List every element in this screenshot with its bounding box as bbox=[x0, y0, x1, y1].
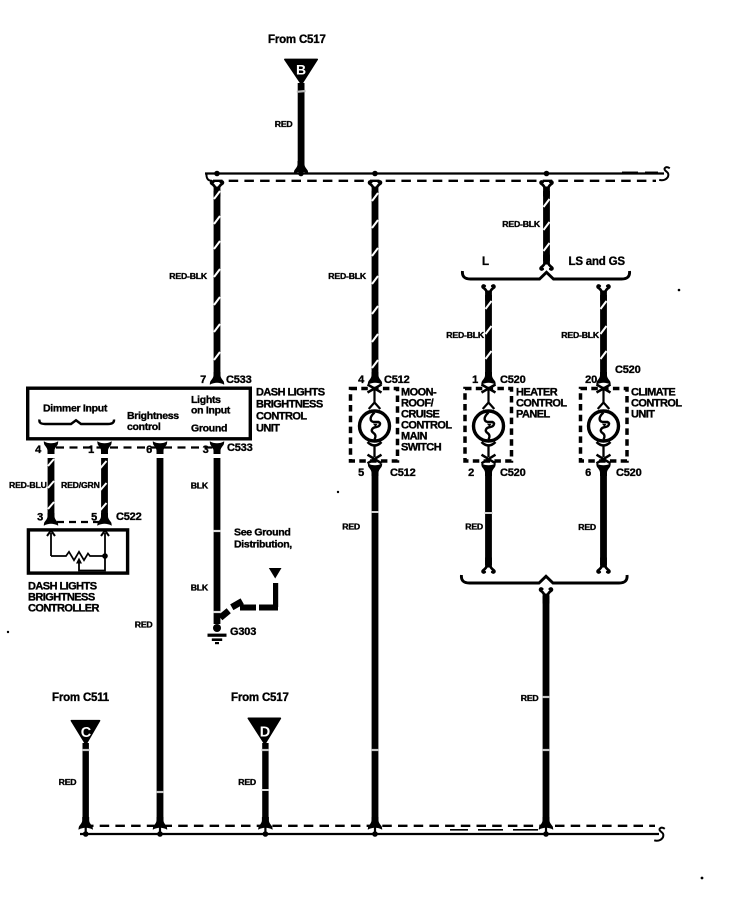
junction dot (ground bus / join wire) bbox=[543, 831, 549, 837]
connector flare at pin 5 (bottom of moon-roof switch) bbox=[368, 463, 382, 476]
svg-text:C533: C533 bbox=[227, 442, 253, 454]
connector flare at pin 1 bbox=[481, 372, 495, 385]
lamp (moon-roof switch illumination) bbox=[360, 385, 390, 464]
svg-text:Ground: Ground bbox=[191, 423, 227, 435]
hot bus artifact dashes near right end bbox=[622, 171, 658, 173]
svg-text:UNIT: UNIT bbox=[631, 409, 655, 421]
svg-text:C533: C533 bbox=[226, 374, 252, 386]
connector flare at ground bus (join wire) bbox=[539, 817, 553, 830]
svg-text:B: B bbox=[296, 62, 306, 78]
svg-text:C512: C512 bbox=[384, 374, 410, 386]
svg-text:C522: C522 bbox=[116, 511, 142, 523]
svg-text:C520: C520 bbox=[616, 467, 642, 479]
svg-text:From C511: From C511 bbox=[52, 692, 110, 704]
wire RED from triangle C to ground bus bbox=[82, 743, 90, 820]
ground bus continuation squiggle (bottom right) bbox=[654, 828, 665, 841]
scan speck (bottom right) bbox=[701, 877, 704, 880]
hook at end of climate wire bbox=[598, 558, 610, 573]
junction dot (ground bus / pin 6 wire) bbox=[157, 831, 163, 837]
svg-text:RED-BLU: RED-BLU bbox=[9, 480, 47, 490]
svg-text:C520: C520 bbox=[500, 374, 526, 386]
potentiometer inside controller bbox=[47, 531, 109, 571]
svg-text:L: L bbox=[482, 256, 489, 268]
lamp (climate control illumination) bbox=[589, 385, 619, 464]
svg-text:C512: C512 bbox=[390, 467, 416, 479]
svg-text:RED: RED bbox=[521, 693, 539, 703]
svg-text:BRIGHTNESS: BRIGHTNESS bbox=[256, 399, 323, 411]
dimmer input range bracket bbox=[39, 420, 114, 425]
connector flare at ground bus (moon-roof wire) bbox=[368, 817, 382, 830]
unit label CLIMATE CONTROL UNIT bbox=[631, 387, 682, 421]
svg-text:SWITCH: SWITCH bbox=[401, 442, 442, 454]
junction dot (bus / wire to C520) bbox=[544, 171, 550, 177]
split bracket (L / LS and GS) bbox=[462, 271, 629, 279]
unit label DASH LIGHTS BRIGHTNESS CONTROL UNIT bbox=[256, 387, 325, 435]
svg-text:RED: RED bbox=[135, 620, 153, 630]
svg-text:6: 6 bbox=[585, 467, 591, 479]
svg-text:RED: RED bbox=[238, 777, 256, 787]
connector flare pin 1 bbox=[97, 441, 111, 454]
hook at end of RED-BLK wire above split bracket bbox=[541, 255, 553, 270]
lamp (heater panel illumination) bbox=[474, 385, 504, 464]
svg-text:From C517: From C517 bbox=[268, 34, 326, 46]
svg-text:6: 6 bbox=[146, 444, 152, 456]
scan speck (right) bbox=[678, 289, 681, 292]
svg-text:on Input: on Input bbox=[191, 405, 231, 417]
svg-text:control: control bbox=[127, 421, 161, 433]
svg-text:BLK: BLK bbox=[191, 583, 209, 593]
svg-text:G303: G303 bbox=[230, 626, 256, 638]
svg-text:3: 3 bbox=[203, 444, 209, 456]
connector flare at ground bus (triangle D wire) bbox=[258, 817, 272, 830]
junction dot (bus / wire B) bbox=[298, 171, 304, 177]
connector C533 dashed line (bottom of control unit) bbox=[56, 446, 221, 448]
dash lights brightness controller box bbox=[28, 530, 127, 573]
label Lights on Input bbox=[191, 394, 231, 417]
hot bus continuation squiggle (top right) bbox=[659, 167, 670, 180]
connector flare at ground bus (pin 6 wire) bbox=[153, 817, 167, 830]
off-page connector triangle D bbox=[248, 718, 280, 744]
svg-text:See Ground: See Ground bbox=[234, 527, 291, 539]
wire RED from triangle B to hot bus bbox=[297, 83, 306, 166]
climate control unit dashed box bbox=[581, 389, 628, 462]
svg-text:2: 2 bbox=[468, 467, 474, 479]
join bracket (heater + climate to single wire) bbox=[461, 575, 627, 583]
svg-text:From C517: From C517 bbox=[231, 692, 289, 704]
connector flare at pin 4 bbox=[368, 372, 382, 385]
junction dot (bus / wire to C512) bbox=[372, 171, 378, 177]
svg-text:5: 5 bbox=[358, 467, 364, 479]
wire RED-BLK from bus to L / LS-GS split bbox=[543, 191, 550, 261]
connector flare at pin 7 bbox=[210, 372, 224, 385]
hook connector below bus at x=546 bbox=[541, 182, 553, 197]
unit label MOON-ROOF/CRUISE CONTROL MAIN SWITCH bbox=[401, 387, 452, 454]
svg-text:LS and GS: LS and GS bbox=[569, 256, 626, 268]
svg-text:RED-BLK: RED-BLK bbox=[446, 330, 485, 340]
svg-text:Distribution,: Distribution, bbox=[234, 539, 292, 551]
hot bus solid line (top) bbox=[205, 172, 664, 174]
wire BLK from control unit pin 3 to G303 bbox=[213, 458, 221, 624]
connector flare C522 pin 3 bbox=[44, 513, 58, 526]
ground bus dashed line (bottom) bbox=[84, 825, 655, 827]
unit label HEATER CONTROL PANEL bbox=[516, 387, 567, 421]
unit label DASH LIGHTS BRIGHTNESS CONTROLLER bbox=[28, 581, 99, 615]
connector flare pin 6 bbox=[153, 441, 167, 454]
hook connector below join bracket bbox=[540, 589, 552, 604]
off-page connector triangle C bbox=[71, 721, 99, 745]
label Brightness control bbox=[127, 410, 179, 433]
svg-text:PANEL: PANEL bbox=[516, 409, 551, 421]
junction dot (ground bus / moon-roof wire) bbox=[372, 831, 378, 837]
junction dot (ground bus / triangle D wire) bbox=[263, 831, 269, 837]
label See Ground Distribution, bbox=[234, 527, 292, 551]
ground G303 symbol bbox=[208, 624, 227, 644]
svg-text:RED-BLK: RED-BLK bbox=[328, 271, 367, 281]
connector flare at ground bus (triangle C wire) bbox=[79, 817, 93, 830]
svg-text:5: 5 bbox=[91, 512, 97, 524]
connector flare C522 pin 5 bbox=[97, 513, 111, 526]
svg-text:DASH LIGHTS: DASH LIGHTS bbox=[256, 387, 325, 399]
svg-text:RED: RED bbox=[342, 522, 360, 532]
connector flare at pin 6 (bottom of climate unit) bbox=[596, 463, 610, 476]
wire RED from control unit pin 6 to ground bus bbox=[156, 458, 164, 820]
wire RED from moon-roof pin 5 to ground bus bbox=[371, 475, 379, 820]
wire RED-BLU from pin 4 to C522 pin 3 bbox=[48, 458, 55, 515]
wire RED from join bracket to ground bus bbox=[542, 596, 550, 820]
svg-text:UNIT: UNIT bbox=[256, 423, 280, 435]
svg-text:CONTROL: CONTROL bbox=[256, 411, 307, 423]
svg-text:RED: RED bbox=[465, 522, 483, 532]
junction dot (bus / wire to C533) bbox=[214, 171, 220, 177]
svg-text:1: 1 bbox=[88, 444, 94, 456]
connector flare at pin 2 (bottom of heater panel) bbox=[481, 463, 495, 476]
svg-text:BLK: BLK bbox=[191, 481, 209, 491]
svg-text:RED-BLK: RED-BLK bbox=[169, 271, 208, 281]
svg-text:RED-BLK: RED-BLK bbox=[561, 330, 600, 340]
scan speck (mid) bbox=[337, 491, 339, 493]
wire RED-BLK to pin 1 C520 bbox=[485, 295, 492, 375]
svg-text:7: 7 bbox=[200, 374, 206, 386]
junction dot (ground bus / triangle C wire) bbox=[83, 831, 89, 837]
svg-text:RED: RED bbox=[59, 777, 77, 787]
wire RED-BLK from bus to pin 7 C533 bbox=[214, 191, 221, 375]
wire RED from heater pin 2 down to join bracket bbox=[485, 475, 493, 565]
hook at end of heater wire bbox=[483, 558, 495, 573]
ground bus stray dashes bbox=[450, 829, 538, 831]
hook connector below bus at x=217 bbox=[211, 182, 223, 197]
svg-text:RED-BLK: RED-BLK bbox=[502, 219, 541, 229]
svg-text:Dimmer Input: Dimmer Input bbox=[43, 403, 108, 415]
ground distribution branch (dashed arrow to other grounds) bbox=[218, 568, 281, 620]
svg-text:C520: C520 bbox=[500, 467, 526, 479]
wire RED-BLK from bus to pin 4 C512 bbox=[372, 191, 379, 375]
dash lights brightness control unit box bbox=[28, 388, 251, 439]
heater control panel dashed box bbox=[465, 389, 512, 462]
svg-text:CONTROLLER: CONTROLLER bbox=[28, 603, 99, 615]
off-page connector triangle B bbox=[285, 59, 318, 84]
wire RED-BLK to pin 20 C520 bbox=[600, 295, 607, 375]
svg-text:1: 1 bbox=[472, 374, 478, 386]
connector flare pin 4 bbox=[44, 441, 58, 454]
hook connector below bracket right (climate branch) bbox=[598, 286, 610, 301]
connector flare of wire B onto hot bus bbox=[294, 161, 308, 174]
ground bus solid line (bottom) bbox=[80, 833, 659, 835]
hook connector below bus at x=375 bbox=[369, 182, 381, 197]
hook connector below bracket left (heater branch) bbox=[483, 286, 495, 301]
svg-text:RED/GRN: RED/GRN bbox=[61, 480, 100, 490]
svg-text:C520: C520 bbox=[615, 364, 641, 376]
connector flare at pin 20 bbox=[596, 372, 610, 385]
svg-text:20: 20 bbox=[585, 374, 597, 386]
svg-text:C: C bbox=[81, 725, 92, 741]
moon-roof/cruise switch dashed box bbox=[351, 389, 398, 462]
svg-text:3: 3 bbox=[37, 512, 43, 524]
wire RED from triangle D to ground bus bbox=[262, 743, 270, 820]
svg-text:RED: RED bbox=[275, 119, 293, 129]
wire RED/GRN from pin 1 to C522 pin 5 bbox=[101, 458, 108, 515]
scan speck (left) bbox=[7, 631, 9, 633]
connector C522 dashed line bbox=[57, 521, 100, 523]
svg-text:RED: RED bbox=[578, 522, 596, 532]
connector flare pin 3 bbox=[210, 441, 224, 454]
svg-text:D: D bbox=[260, 725, 270, 741]
wire RED from climate pin 6 down to join bracket bbox=[600, 475, 607, 565]
hot bus dashed line (top) bbox=[206, 174, 656, 181]
